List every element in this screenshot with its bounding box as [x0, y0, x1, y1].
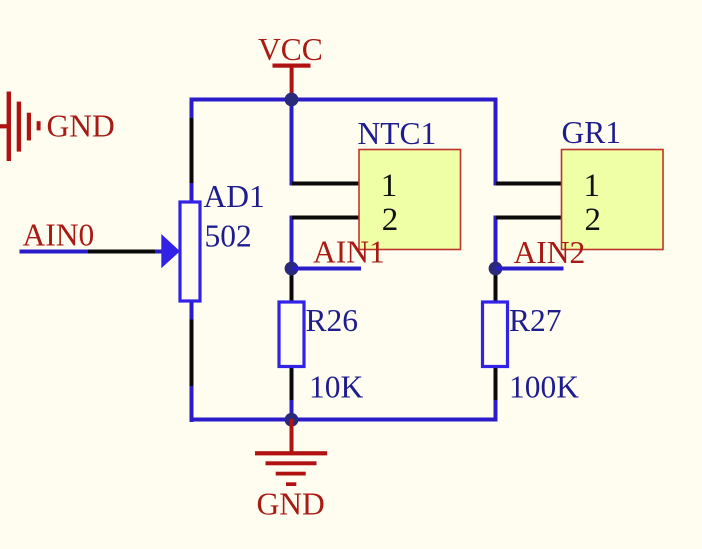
svg-text:2: 2: [382, 202, 399, 238]
wire right column R27 to bottom rail: [494, 400, 498, 421]
svg-text:AD1: AD1: [204, 179, 265, 214]
pin R27.1 (black): [494, 271, 498, 302]
wire right column from top rail down to GR1 pin1: [494, 98, 498, 186]
svg-text:1: 1: [381, 168, 398, 204]
svg-text:AIN1: AIN1: [313, 235, 385, 270]
wire left column lower (blue part): [190, 386, 194, 422]
node AIN2 wire stub: [496, 267, 564, 271]
svg-text:GND: GND: [257, 486, 325, 521]
svg-text:GND: GND: [47, 109, 115, 144]
svg-text:R27: R27: [509, 303, 562, 338]
wire left column above AD1 body: [190, 183, 194, 202]
resistor R26 body: [279, 302, 304, 367]
junction dot VCC node: [285, 93, 299, 107]
thermistor NTC1 pin 1 stub (black): [292, 182, 359, 186]
wire top rail VCC net: [190, 98, 498, 102]
wire bottom rail GND net: [190, 418, 498, 422]
potentiometer AD1 body: [180, 202, 200, 301]
pin AD1.2 wiper lead (black): [88, 250, 155, 254]
photoresistor GR1 pin 1 stub (black): [496, 182, 562, 186]
svg-text:AIN2: AIN2: [514, 235, 586, 270]
pin AD1.3 (black segment, left column): [190, 320, 194, 387]
junction dot AIN2 node: [489, 262, 503, 276]
junction dot AIN1 node: [285, 262, 299, 276]
wire mid column R26 to bottom rail: [290, 400, 294, 421]
photoresistor GR1 body: [562, 150, 664, 250]
svg-text:1: 1: [583, 168, 600, 204]
thermistor NTC1 body: [359, 150, 461, 250]
wire mid column from VCC junction down to NTC1 pin1: [290, 98, 294, 186]
power VCC symbol: [273, 64, 311, 97]
svg-text:AIN0: AIN0: [23, 218, 95, 253]
svg-text:NTC1: NTC1: [358, 116, 437, 151]
thermistor NTC1 pin 2 stub (black): [292, 216, 359, 220]
node AIN1 wire stub: [292, 267, 362, 271]
pin AD1.1 (black segment, left column): [190, 118, 194, 183]
potentiometer AD1 wiper arrow: [161, 234, 180, 268]
svg-text:10K: 10K: [309, 369, 364, 404]
junction dot GND node: [285, 413, 299, 427]
pin R26.1 (black): [290, 271, 294, 302]
resistor R27 body: [483, 302, 508, 367]
svg-text:GR1: GR1: [562, 115, 622, 150]
wire left column upper (blue part): [190, 98, 194, 119]
photoresistor GR1 pin 2 stub (black): [496, 216, 562, 220]
wire left column below AD1 body: [190, 302, 194, 320]
wire stub into wiper arrow: [155, 250, 163, 254]
wire mid column from NTC1 pin2 down to AIN1 junction: [290, 216, 294, 271]
svg-text:100K: 100K: [509, 369, 579, 404]
wire right column from GR1 pin2 down to AIN2 junction: [494, 216, 498, 271]
node AIN0 wire (blue part): [20, 250, 89, 254]
ground GND (left, rotated earth symbol): [0, 92, 41, 162]
pin R26.2 (black): [290, 367, 294, 401]
ground GND (bottom earth symbol): [255, 419, 327, 486]
svg-text:VCC: VCC: [258, 32, 323, 67]
pin R27.2 (black): [494, 367, 498, 401]
svg-text:R26: R26: [306, 303, 359, 338]
svg-text:2: 2: [584, 202, 601, 238]
svg-text:502: 502: [205, 219, 252, 254]
